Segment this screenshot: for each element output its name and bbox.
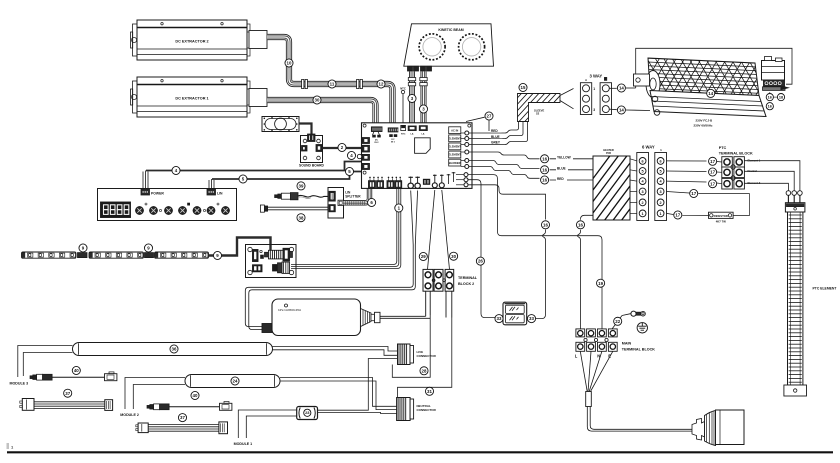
label 16 (switch riser) (541, 221, 549, 229)
svg-text:ELEMENT: ELEMENT (448, 145, 461, 149)
mains cord (580, 351, 692, 431)
label 14 (top) (617, 84, 625, 92)
svg-text:MODULE 3: MODULE 3 (10, 382, 29, 386)
wire 4 (power cable) (143, 162, 362, 190)
label 26 (476, 257, 484, 265)
fan voltage text (694, 119, 714, 128)
svg-text:16: 16 (768, 105, 772, 109)
svg-text:39: 39 (299, 183, 304, 188)
red/blue/grey wires to sleeve (469, 122, 528, 145)
twin cable to splitter (item 38) (260, 205, 328, 212)
lamp cable left (item 3) (408, 72, 415, 127)
label 16 (yellow) (541, 155, 549, 163)
label 9 (second) (144, 244, 152, 252)
svg-text:1: 1 (593, 87, 595, 91)
label 30 (313, 96, 321, 104)
lower 3way wire (609, 109, 650, 110)
svg-text:MAIN: MAIN (622, 342, 632, 346)
svg-text:3 WAY: 3 WAY (590, 74, 603, 79)
svg-text:1: 1 (642, 212, 644, 216)
label 37 (module 2) (178, 414, 186, 422)
label 38 (297, 214, 305, 222)
svg-text:NTC: NTC (400, 87, 406, 91)
svg-text:YELLOW: YELLOW (557, 156, 571, 160)
label 17 (a) (709, 157, 717, 165)
svg-text:40: 40 (74, 368, 79, 373)
label 16 (main TB riser) (576, 221, 584, 229)
svg-text:RESISTOR: RESISTOR (714, 214, 728, 218)
svg-text:40: 40 (193, 393, 198, 398)
svg-text:24: 24 (233, 379, 238, 384)
adapter DC cable (245, 245, 415, 330)
heater relay block (560, 148, 714, 223)
module 1 wires (238, 410, 296, 438)
svg-text:L: L (575, 353, 578, 358)
label 16 (blue) (541, 166, 549, 174)
page bottom border (7, 444, 834, 452)
sleeve item 15 (487, 90, 635, 125)
label 19 (597, 279, 605, 287)
svg-text:MODULE 1: MODULE 1 (234, 442, 253, 446)
label 4 (at board) (347, 151, 355, 159)
svg-text:14: 14 (619, 86, 624, 91)
svg-text:28: 28 (422, 368, 427, 373)
svg-text:30: 30 (315, 98, 320, 103)
svg-text:230V 60/50Hz: 230V 60/50Hz (694, 124, 714, 128)
earth symbol (637, 323, 647, 333)
speaker (262, 117, 299, 132)
svg-text:27: 27 (487, 114, 492, 119)
svg-text:29: 29 (421, 254, 426, 259)
svg-text:2: 2 (642, 201, 644, 205)
splitter to board cable (item 6) (344, 189, 370, 206)
svg-text:11: 11 (330, 82, 335, 87)
module 2 wires (125, 378, 185, 410)
ribbon cable item 37 (module 3) (20, 399, 113, 411)
svg-text:CONNECTOR: CONNECTOR (417, 354, 437, 358)
LED strip feed wire (209, 238, 271, 256)
svg-text:16: 16 (542, 167, 547, 172)
label 17 (e) (674, 211, 682, 219)
label 5 (239, 175, 247, 183)
svg-text:6: 6 (660, 159, 662, 163)
label 23 (304, 409, 311, 416)
PTC element (784, 191, 807, 396)
svg-text:37: 37 (65, 391, 70, 396)
svg-text:16: 16 (768, 95, 772, 99)
svg-text:16: 16 (543, 222, 548, 227)
svg-text:30: 30 (451, 254, 456, 259)
svg-text:1: 1 (660, 212, 662, 216)
LED strip 1 (22, 252, 77, 258)
label 31 (425, 387, 433, 395)
svg-text:12: 12 (379, 82, 384, 87)
ribbon cable item 37 (module 2) (136, 422, 228, 434)
NTC sensor wire (400, 87, 406, 127)
main terminal block (575, 329, 655, 358)
label 24 (231, 377, 239, 385)
label 17 (b) (709, 168, 717, 176)
label 36 (170, 345, 178, 353)
interface PCB (246, 245, 297, 278)
svg-text:17: 17 (691, 191, 696, 196)
svg-text:17: 17 (710, 159, 715, 164)
wires tube24 to neutral connector (280, 378, 397, 410)
3 way connector (580, 74, 611, 115)
tapering wires from board to adapter cable (411, 191, 418, 246)
label 9 (third) (213, 251, 221, 259)
svg-text:18: 18 (779, 95, 783, 99)
wire to TB2 left (item 29) (428, 190, 435, 270)
svg-text:ELEMENT: ELEMENT (448, 137, 461, 141)
inline ferrite (item 23) (297, 407, 318, 420)
svg-text:GREY: GREY (491, 141, 501, 145)
label 40 (module 2) (191, 391, 199, 399)
svg-text:3: 3 (642, 190, 644, 194)
svg-text:AC IN: AC IN (451, 128, 458, 132)
svg-text:23: 23 (305, 410, 310, 415)
main control board (357, 123, 472, 189)
svg-text:38: 38 (299, 215, 304, 220)
sleeve to 3-way wires (560, 89, 574, 109)
wire cable from DC extractor 1 (item 30) (267, 100, 376, 127)
label 28 (420, 367, 428, 375)
label 10 (285, 59, 293, 67)
svg-text:BLUE: BLUE (557, 167, 566, 171)
label 30 (TB2) (450, 252, 458, 260)
label 37 (64, 389, 72, 397)
LIN splitter box (328, 188, 361, 219)
label 1 (395, 204, 403, 212)
live connector wire loop (392, 315, 430, 377)
svg-text:BLOCK 2: BLOCK 2 (458, 282, 474, 286)
svg-text:LIN: LIN (217, 191, 223, 195)
svg-text:12V-1A0500-05A: 12V-1A0500-05A (278, 308, 302, 312)
DC extractor 1 unit (131, 77, 251, 117)
label 4 (172, 166, 180, 174)
svg-text:26: 26 (478, 259, 483, 264)
wire board to main TB (N) (468, 175, 602, 329)
svg-text:MODULE 2: MODULE 2 (120, 413, 139, 417)
svg-text:3: 3 (660, 190, 662, 194)
svg-text:RED: RED (557, 177, 564, 181)
svg-text:POWER: POWER (151, 191, 164, 195)
svg-text:33: 33 (497, 316, 502, 321)
kinetic beam lamp unit (404, 24, 494, 66)
neutral connector (397, 398, 437, 421)
LED strip joint connector (78, 253, 88, 258)
label 11 (328, 80, 336, 88)
label 14 (lower) (617, 106, 625, 114)
sound board wire (item 2) (323, 147, 362, 149)
label 17 (c) (709, 180, 717, 188)
svg-text:RED: RED (491, 129, 498, 133)
svg-text:33: 33 (529, 316, 534, 321)
label 15 (519, 83, 527, 91)
svg-text:17: 17 (710, 181, 715, 186)
6 way connector (637, 145, 667, 221)
svg-text:37: 37 (180, 415, 185, 420)
svg-text:15: 15 (521, 85, 526, 90)
lamp cable right (item 3) (420, 72, 427, 127)
wire board to switch via 26 (468, 180, 499, 318)
lamp terminal pads (408, 66, 432, 71)
svg-text:TERMINAL BLOCK: TERMINAL BLOCK (719, 152, 753, 156)
svg-text:22: 22 (615, 319, 620, 324)
svg-text:14: 14 (708, 91, 713, 96)
earth wire + ring terminal (item 22) (612, 311, 645, 329)
3way to fan wires + labels 14 (609, 48, 792, 88)
svg-text:SOUND BOARD: SOUND BOARD (299, 164, 325, 168)
svg-text:LA: LA (411, 132, 414, 135)
heater block to 6way wires (630, 159, 637, 214)
label 5 (at board) (345, 167, 353, 175)
svg-text:19: 19 (598, 281, 603, 286)
wire board to 16 switch riser (468, 185, 546, 319)
audio jack cable to splitter (item 39) (275, 193, 328, 200)
svg-text:Element 2: Element 2 (748, 181, 761, 185)
label 27 (466, 112, 493, 131)
svg-text:KINETIC BEAM: KINETIC BEAM (438, 28, 463, 32)
svg-text:TERMINAL BLOCK: TERMINAL BLOCK (622, 348, 655, 352)
wires tube36 to live connector (273, 347, 398, 356)
label 12 (377, 80, 385, 88)
LED strip joint connector 2 (145, 253, 154, 258)
label 3 (right lamp cable) (419, 105, 427, 113)
svg-text:17: 17 (675, 213, 680, 218)
resistor 4K7 (709, 212, 734, 223)
svg-text:LA: LA (422, 132, 425, 135)
wire heater block to main TB L (578, 215, 594, 329)
mains plug (692, 410, 744, 446)
wire to TB2 right (item 30) (442, 190, 450, 270)
svg-text:A: A (585, 78, 587, 82)
svg-text:31: 31 (427, 389, 432, 394)
svg-text:ELEMENT: ELEMENT (448, 153, 461, 157)
speaker wire (299, 124, 312, 136)
PTC element wires (744, 161, 800, 191)
LED strip 3 (155, 252, 209, 258)
rocker switch unit (503, 302, 527, 325)
svg-text:BLOWER: BLOWER (449, 161, 461, 165)
PTC terminal block (719, 146, 761, 189)
svg-text:5: 5 (660, 169, 662, 173)
svg-text:PCB: PCB (606, 152, 611, 155)
audio cable item 40 (module 3) (30, 372, 117, 381)
svg-text:14: 14 (619, 108, 624, 113)
label 17 (d) (690, 189, 698, 197)
svg-text:SPLITTER: SPLITTER (345, 194, 361, 198)
svg-text:CONNECTOR: CONNECTOR (417, 408, 437, 412)
crossflow blower fan (634, 54, 791, 117)
DC extractor 1 output connector (249, 89, 267, 107)
label 40 (72, 366, 80, 374)
audio cable item 40 (module 2) (147, 402, 232, 411)
svg-text:S2: S2 (536, 112, 540, 116)
svg-text:10: 10 (287, 61, 292, 66)
terminal block 2 (423, 269, 478, 291)
live connector (398, 344, 437, 365)
svg-text:BLUE: BLUE (491, 135, 500, 139)
wire cable from DC extractor 2 (items 10/11/12) (267, 37, 393, 127)
heater tube module 3 (item 36) (73, 343, 273, 356)
DC extractor 2 output connector (249, 31, 267, 49)
svg-text:DC EXTRACTOR 2: DC EXTRACTOR 2 (175, 40, 208, 44)
DC extractor 2 unit (131, 20, 251, 60)
power adapter (262, 299, 430, 336)
control panel (98, 189, 237, 221)
label 22 (614, 317, 622, 325)
label 14 (fan) (707, 89, 715, 97)
yellow/blue/red wires (469, 152, 593, 181)
svg-text:16: 16 (542, 178, 547, 183)
label 39 (297, 182, 305, 190)
fan terminal labels 16/18 (766, 92, 784, 110)
svg-text:DC EXTRACTOR 1: DC EXTRACTOR 1 (175, 97, 208, 101)
svg-text:4K7 7W: 4K7 7W (716, 220, 726, 224)
svg-text:3: 3 (593, 108, 595, 112)
svg-text:PTC: PTC (719, 146, 727, 150)
wire 5 (LIN cable) (209, 172, 362, 190)
svg-text:17: 17 (710, 170, 715, 175)
svg-text:36: 36 (172, 347, 177, 352)
svg-text:16: 16 (578, 222, 583, 227)
ribbon cable item 1 (291, 189, 401, 269)
label 33 (right) (527, 315, 535, 323)
sound board (299, 134, 325, 168)
svg-text:6 WAY: 6 WAY (642, 145, 655, 150)
svg-text:230V FCJ-B: 230V FCJ-B (696, 119, 714, 123)
label 2 (338, 143, 346, 151)
svg-text:2: 2 (660, 201, 662, 205)
label 33 (left) (495, 315, 503, 323)
neutral connector wire loop (item 31) (398, 318, 452, 398)
svg-text:NTC: NTC (401, 133, 406, 135)
svg-text:Neutral: Neutral (748, 169, 758, 173)
6way to PTC wires (17) (667, 161, 722, 184)
svg-text:6: 6 (642, 159, 644, 163)
label 6 (368, 198, 376, 206)
label 16 (red) (541, 176, 549, 184)
svg-text:TERMINAL: TERMINAL (458, 276, 478, 280)
LED strip 2 (89, 252, 144, 258)
svg-text:5: 5 (642, 169, 644, 173)
label 29 (419, 252, 427, 260)
module 1 wires right of ferrite (318, 359, 398, 414)
label 9 (79, 244, 87, 252)
TB2 bottom right wires (446, 292, 452, 318)
svg-text:16: 16 (542, 156, 547, 161)
module 3 wires (18, 346, 73, 378)
TB2 bottom left wires (426, 292, 431, 317)
label 3 (left lamp cable) (408, 94, 416, 102)
heater tube module 2 (item 24) (185, 375, 280, 388)
resistor loop wire (667, 192, 750, 216)
svg-text:PTC ELEMENT: PTC ELEMENT (813, 287, 838, 291)
